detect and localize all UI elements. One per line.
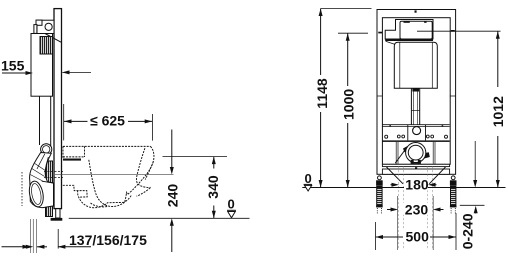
bowl outer profile [78,146,154,207]
toilet bowl rim [63,145,151,147]
drain bolt dot [415,167,417,169]
drain flange tabs [411,160,414,164]
floor ref arrow [474,141,476,184]
dim 180 [391,179,437,191]
dashed service line [21,172,23,206]
bottom members [382,164,449,166]
elbow tube top edge [42,181,54,183]
bolt dashed lines [399,166,433,250]
rim level extension [163,156,228,158]
rail joint ticks [377,95,456,97]
dim 340 [212,157,216,219]
cistern front [394,42,437,88]
dim 500 [376,213,457,250]
dim 1000 [338,33,368,187]
flush pipe front [411,88,419,124]
dim 1012 [417,31,501,187]
outlet pipe dashes through rail [44,172,63,178]
svg-text:340: 340 [205,175,221,199]
zero marker left view [227,197,236,218]
floor line left view [69,217,250,219]
svg-text:240: 240 [164,184,180,208]
hatched bracket [46,161,53,217]
bracket roller [45,23,52,30]
funnel side walls [396,142,435,164]
foot bottom level line [460,204,485,206]
dim 1148 [319,9,372,188]
bolt holes [397,135,400,138]
svg-text:180: 180 [405,177,429,193]
svg-text:0: 0 [305,171,312,186]
left foot [376,176,383,214]
elbow connection circle [41,144,52,155]
elbow end cap [27,180,45,208]
dim 230 [387,203,444,215]
svg-text:155: 155 [1,58,25,74]
pipe top connector [412,88,419,91]
top center tick [415,10,417,12]
svg-text:0-240: 0-240 [459,213,475,249]
dim 137/156/175 [2,219,92,253]
drain bend circle [406,143,426,163]
drain elbow body [30,153,54,208]
left anchor tick [378,32,382,34]
bowl back box [63,185,87,197]
right foot [450,176,457,214]
svg-text:1012: 1012 [490,96,506,127]
bowl inner front 2 [145,162,153,180]
mounting plate [382,125,449,127]
plate dividers [408,125,426,141]
seat hinge dash [63,146,85,158]
dim le625 [64,104,153,141]
funnel diagonals [387,167,446,184]
frame outline [377,10,456,175]
drain strut [395,147,407,163]
svg-text:1148: 1148 [314,78,330,109]
right anchor tick [451,30,455,32]
frame rail (side view) [54,9,62,209]
centerline drain axis [55,174,174,176]
plate screws [389,125,391,127]
dim 0-240 [474,206,478,214]
fill valve hatched [40,37,53,55]
svg-text:0: 0 [228,197,235,212]
top bracket [37,20,54,33]
floor line right view [302,187,505,189]
foot tube [56,209,60,218]
bowl inner front [136,148,150,187]
svg-text:≤ 625: ≤ 625 [90,113,125,129]
svg-text:500: 500 [406,229,430,245]
dim 240 [170,130,174,253]
svg-text:1000: 1000 [341,89,357,120]
svg-text:230: 230 [405,202,429,218]
mounting thick line [63,159,81,161]
bowl front flange [137,188,151,196]
flush plate box [385,20,433,40]
strut diagonal [45,34,61,43]
foot plate [51,218,63,221]
flush pipe (side) [40,96,51,146]
dim 230 extension lines [398,196,434,250]
actuator step B [34,25,37,34]
plate center hole [413,127,421,135]
zero marker right view [304,171,312,191]
bowl inner trap [89,160,131,207]
cistern tank (side view) [31,34,53,97]
svg-text:137/156/175: 137/156/175 [69,232,147,248]
actuator step A [36,20,42,25]
bowl trap bottom [91,203,109,207]
drain clamps [403,146,409,152]
dim 155 [2,70,91,75]
elbow inner wall [30,154,48,182]
